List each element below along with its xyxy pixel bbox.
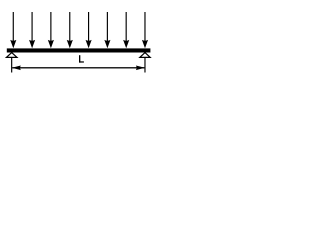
load arrow 4 [67,12,73,48]
load arrow 5 [86,12,92,48]
load arrow 2 [29,12,35,48]
right support (pin) [140,53,150,58]
beam [7,48,151,52]
left support (pin) [6,53,17,58]
left dimension arrowhead [12,66,21,71]
right extension line [144,58,145,73]
load arrow 3 [48,12,54,48]
label L [79,55,84,62]
load arrow 8 [142,12,148,48]
load arrow 1 [10,12,16,48]
load arrow 7 [123,12,129,48]
load arrow 6 [104,12,110,48]
beam diagram: simply supported beam with uniform distributed load [0,0,155,93]
dimension line [12,67,144,68]
right dimension arrowhead [136,66,145,71]
left extension line [11,58,12,73]
background [0,0,155,93]
